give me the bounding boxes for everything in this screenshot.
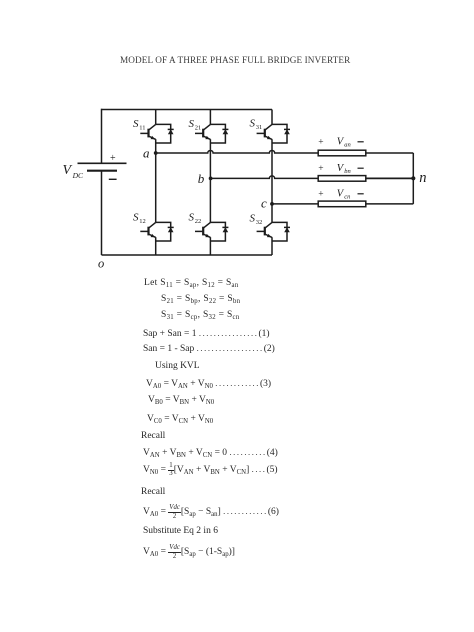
svg-text:an: an	[344, 142, 351, 149]
svg-text:S: S	[133, 212, 139, 224]
freewheel diode D32 loop	[272, 222, 287, 241]
label minus Vbn	[358, 167, 364, 169]
transistor S31	[257, 124, 272, 139]
wire bottom rail	[102, 254, 273, 256]
title	[120, 55, 350, 65]
equation 2	[143, 343, 275, 354]
label S21	[189, 118, 202, 131]
wire leg2 to bottom rail	[209, 237, 211, 255]
svg-text:31: 31	[256, 124, 262, 131]
svg-text:a: a	[143, 145, 150, 160]
wire Vbn to node n	[366, 177, 414, 179]
svg-text:V: V	[63, 163, 73, 178]
load resistor Vbn	[318, 176, 366, 182]
svg-text:22: 22	[195, 218, 202, 225]
wire node b to load with hop	[210, 176, 318, 179]
label VDC	[63, 163, 85, 180]
svg-text:S: S	[189, 212, 195, 224]
equation VB0	[148, 395, 214, 405]
freewheel diode D11 loop	[156, 124, 171, 143]
svg-text:o: o	[98, 257, 104, 271]
equation 3	[146, 378, 271, 389]
svg-text:b: b	[198, 171, 205, 186]
freewheel diode D31 loop	[272, 124, 287, 143]
wire leg3 collector feed	[271, 110, 273, 125]
wire Van to n bus	[366, 152, 414, 154]
equation line 1	[144, 278, 239, 288]
transistor S12	[140, 222, 155, 237]
equation 4	[143, 447, 278, 458]
label S12	[133, 212, 146, 225]
diode D32	[284, 227, 290, 232]
wire leg1 to bottom rail	[155, 237, 157, 255]
label S32	[250, 213, 263, 226]
svg-text:S: S	[189, 118, 195, 130]
freewheel diode D22 loop	[210, 222, 225, 241]
equation line 2	[161, 294, 240, 304]
transistor S21	[195, 124, 210, 139]
label Vcn	[337, 188, 351, 200]
freewheel diode D21 loop	[210, 124, 225, 143]
heading Using KVL	[155, 361, 200, 371]
transistor S11	[140, 124, 155, 139]
svg-text:S: S	[250, 213, 256, 225]
diode D21	[222, 129, 228, 134]
svg-text:+: +	[318, 138, 323, 148]
node c	[270, 202, 274, 206]
svg-text:32: 32	[256, 219, 262, 226]
label Van	[337, 136, 351, 148]
svg-text:S: S	[250, 118, 256, 130]
label minus Van	[358, 141, 364, 143]
heading Substitute	[143, 526, 218, 536]
wire left rail lower	[101, 171, 103, 255]
equation VC0	[147, 414, 213, 424]
svg-text:12: 12	[139, 218, 146, 225]
wire leg3 c to S32	[271, 204, 273, 223]
svg-text:21: 21	[195, 124, 202, 131]
wire node a to load with hops	[156, 151, 319, 154]
wire leg1 to node a	[155, 139, 157, 153]
svg-text:n: n	[419, 170, 426, 186]
transistor S22	[195, 222, 210, 237]
wire leg2 collector feed	[209, 110, 211, 125]
equation 1	[143, 328, 270, 339]
wire top rail	[102, 109, 273, 111]
svg-text:+: +	[318, 190, 323, 200]
wire leg3 to node c	[271, 139, 273, 204]
battery minus sign	[109, 178, 117, 180]
wire leg1 a to S12	[155, 153, 157, 222]
wire n bus vertical	[412, 153, 414, 204]
node a	[154, 151, 158, 155]
node b	[209, 177, 213, 181]
node n	[411, 176, 415, 180]
svg-text:c: c	[261, 196, 267, 211]
heading Recall	[141, 431, 165, 441]
wire leg1 collector feed	[155, 110, 157, 125]
label S11	[133, 118, 146, 131]
label S31	[250, 118, 263, 131]
svg-text:11: 11	[139, 124, 145, 131]
label Vbn	[337, 163, 351, 175]
battery VDC	[78, 163, 127, 170]
svg-text:bn: bn	[344, 168, 351, 175]
load resistor Van	[318, 150, 366, 156]
wire node c to load	[272, 203, 318, 205]
svg-text:S: S	[133, 118, 139, 130]
wire leg2 to node b	[209, 139, 211, 178]
equation line 3	[161, 310, 240, 320]
svg-text:+: +	[318, 164, 323, 174]
freewheel diode D12 loop	[156, 222, 171, 241]
svg-text:cn: cn	[344, 194, 350, 201]
wire Vcn to n bus	[366, 203, 414, 205]
equation 6	[143, 505, 279, 521]
label minus Vcn	[358, 193, 364, 195]
diode D22	[222, 227, 228, 232]
svg-text:DC: DC	[72, 171, 84, 180]
equation final	[143, 545, 235, 561]
transistor S32	[257, 222, 272, 237]
diode D12	[168, 227, 174, 232]
diode D31	[284, 129, 290, 134]
svg-text:+: +	[110, 153, 116, 164]
label S22	[189, 212, 202, 225]
wire left rail upper	[101, 109, 103, 164]
diode D11	[168, 129, 174, 134]
equation 5	[143, 463, 278, 479]
wire leg3 to bottom rail	[271, 237, 273, 255]
wire leg2 b to S22	[209, 178, 211, 222]
heading Recall 2	[141, 487, 165, 497]
load resistor Vcn	[318, 201, 366, 207]
